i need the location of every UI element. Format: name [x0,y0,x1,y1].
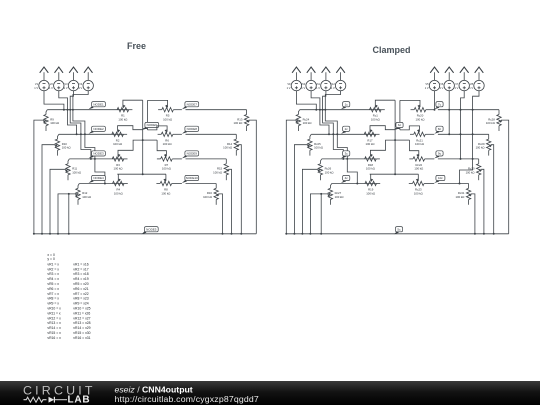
svg-text:1 V: 1 V [301,86,305,90]
potentiometer Rc26 (left cascade) with wiper wire to bottom bus [302,159,333,234]
node flag 1c [341,102,350,110]
wire row 3 left [322,158,377,160]
node flag NODE2 [89,126,106,134]
svg-text:NODE2: NODE2 [93,127,104,131]
wire mid-bus bridge [395,128,400,130]
svg-text:100 kΩ: 100 kΩ [82,195,91,199]
voltage source V8 with up-arrow flag [469,67,484,91]
svg-text:vR16 = x: vR16 = x [47,336,61,340]
svg-text:vR12 = x27: vR12 = x27 [73,316,90,320]
potentiometer R1 on row 1 with wiper riser [117,100,143,121]
svg-text:100 kΩ: 100 kΩ [416,118,425,122]
node flag 5c [394,227,403,235]
svg-text:100 kΩ: 100 kΩ [335,195,344,199]
wire from V4 down to row 4 [72,91,106,185]
potentiometer R16 (right cascade) with wiper wire to bottom bus [203,184,222,234]
svg-text:NODE10: NODE10 [186,176,198,180]
svg-text:vR11 = x: vR11 = x [47,311,61,315]
node flag 2c [341,126,350,134]
wire cross connector row3 level [394,139,409,141]
svg-text:2c: 2c [345,127,349,131]
potentiometer Rc23 on row 4 right half [409,174,424,195]
wire row 4 left [332,183,377,185]
wire mid-bus bridge [143,128,148,130]
svg-text:NODE3: NODE3 [93,152,104,156]
voltage source V4 with up-arrow flag [78,67,93,91]
svg-text:vR1 = x: vR1 = x [47,262,59,266]
svg-text:1 V: 1 V [78,86,82,90]
potentiometer R6 on row 2 right half [148,126,173,146]
svg-text:100 kΩ: 100 kΩ [466,170,475,174]
svg-text:10c: 10c [438,176,443,180]
svg-text:100 kΩ: 100 kΩ [118,118,127,122]
potentiometer R9 (left cascade) with wiper wire to bottom bus [34,110,59,234]
footer CircuitLab logo bar [0,381,540,405]
node flag 3c [341,151,350,159]
svg-text:100 kΩ: 100 kΩ [303,121,312,125]
wire tee from last cascade wiper to bottom bus [320,193,322,235]
potentiometer R14 (right cascade) with wiper wire to bottom bus [223,134,241,234]
svg-text:V9: V9 [287,82,291,86]
wire from V6 down to row 2 (clamp) [448,91,450,136]
parameter expression text block [47,253,90,340]
wire row 1 right [173,109,182,111]
potentiometer R11 (left cascade) with wiper wire to bottom bus [50,159,81,234]
potentiometer Rc21 on row 2 right half [400,126,425,146]
svg-text:100 kΩ: 100 kΩ [213,170,222,174]
svg-text:vR6 = x: vR6 = x [47,287,59,291]
svg-text:vR4 = x: vR4 = x [47,277,59,281]
potentiometer Rc28 (right cascade) with wiper wire to bottom bus [486,110,509,234]
potentiometer R8 on row 4 right half [156,174,171,195]
svg-text:1 V: 1 V [64,86,68,90]
svg-text:100 kΩ: 100 kΩ [50,121,59,125]
wire row 2 right [425,133,434,135]
potentiometer R4 on row 4 with wiper riser [113,174,128,195]
voltage source V7 with up-arrow flag [454,67,469,91]
svg-text:http://circuitlab.com/cygxzp87: http://circuitlab.com/cygxzp87qgdd7 [115,394,259,404]
svg-text:vR10 = x: vR10 = x [47,307,61,311]
svg-text:8c: 8c [438,127,442,131]
svg-text:vR14 = x29: vR14 = x29 [73,326,90,330]
voltage source V3 with up-arrow flag [64,67,79,91]
svg-text:NODE5: NODE5 [146,227,157,231]
wire row 1 to cascade [438,109,499,111]
wire from V1 down to row 1 [44,91,65,111]
wire row 4 to cascade [438,183,469,185]
svg-text:vR10 = x25: vR10 = x25 [73,307,90,311]
svg-text:vR11 = x26: vR11 = x26 [73,311,90,315]
svg-text:1 V: 1 V [287,86,291,90]
wire row 3 left [69,158,124,160]
node flag 7c [434,102,443,110]
voltage source V12 with up-arrow flag [330,67,346,91]
svg-text:100 kΩ: 100 kΩ [366,167,375,171]
potentiometer R18 on row 3 with wiper riser [365,140,396,171]
wire from V3 down to row 3 [69,91,92,160]
wire bottom bus [285,233,508,235]
wire middle bus left vertical [142,100,144,174]
svg-text:vR15 = x: vR15 = x [47,331,61,335]
potentiometer Rc1 on row 1 with wiper riser [370,100,396,121]
wire row 4 to cascade [186,183,217,185]
svg-text:LAB: LAB [68,395,91,405]
svg-text:NODE1: NODE1 [93,102,104,106]
svg-text:100 kΩ: 100 kΩ [415,142,424,146]
svg-text:100 kΩ: 100 kΩ [233,121,242,125]
svg-text:1 V: 1 V [439,86,443,90]
node flag 9c [434,151,443,159]
potentiometer Rc31 (right cascade) with wiper wire to bottom bus [455,184,474,234]
potentiometer Rc24 (left cascade) with wiper wire to bottom bus [286,110,311,234]
wire from V5 down to row 1 (clamp) [434,91,436,111]
wire from V2 down to row 2 [59,91,78,136]
svg-text:NODE9: NODE9 [187,152,198,156]
node flag NODE6 [142,122,159,130]
node flag NODE8 [182,126,199,134]
potentiometer R17 on row 2 with wiper riser [364,126,395,146]
wire row 3 to cascade [438,158,479,160]
node flag NODE10 [182,175,199,183]
svg-text:vR16 = x31: vR16 = x31 [73,336,90,340]
wire row 1 left [47,109,128,111]
wire middle bus right vertical [399,100,401,129]
svg-text:vR3 = x18: vR3 = x18 [73,272,88,276]
svg-text:1 V: 1 V [49,86,53,90]
svg-text:vR15 = x30: vR15 = x30 [73,331,90,335]
node flag NODE1 [89,102,106,110]
node flag 6c [394,122,403,130]
svg-text:vR1 = x16: vR1 = x16 [73,262,88,266]
svg-text:vR13 = x: vR13 = x [47,321,61,325]
svg-text:NODE4: NODE4 [93,176,104,180]
svg-text:100 kΩ: 100 kΩ [163,118,172,122]
node flag 8c [434,126,443,134]
wire row 3 right [425,158,435,160]
wire from V11 down to row 3 [322,91,345,160]
svg-text:100 kΩ: 100 kΩ [114,191,123,195]
potentiometer Rc27 (left cascade) with wiper wire to bottom bus [310,184,343,234]
svg-text:Free: Free [127,41,146,51]
wire from V10 down to row 2 [311,91,330,136]
svg-text:vR12 = x: vR12 = x [47,316,61,320]
wire row 1 to cascade [186,109,247,111]
svg-text:vR5 = x: vR5 = x [47,282,59,286]
voltage source V1 with up-arrow flag [34,67,49,91]
potentiometer R15 (right cascade) with wiper wire to bottom bus [213,159,231,234]
svg-text:6c: 6c [398,123,402,127]
svg-text:vR3 = x: vR3 = x [47,272,59,276]
wire row 3 right [172,158,182,160]
svg-text:100 kΩ: 100 kΩ [113,142,122,146]
voltage source V10 with up-arrow flag [301,67,317,91]
wire row 2 to cascade [186,133,237,135]
wire row 4 right [172,183,182,185]
svg-text:V8: V8 [470,82,474,86]
svg-text:V12: V12 [330,82,335,86]
svg-text:1 V: 1 V [331,86,335,90]
wire row 2 to cascade [438,133,489,135]
svg-text:100 kΩ: 100 kΩ [366,142,375,146]
node flag NODE3 [89,151,106,159]
node flag 4c [341,175,350,183]
wire middle bus right vertical [147,100,149,129]
wire from V9 down to row 1 [296,91,317,111]
svg-text:V5: V5 [425,82,429,86]
svg-text:3c: 3c [345,152,349,156]
svg-text:V7: V7 [455,82,459,86]
voltage source V5 with up-arrow flag [425,67,440,91]
svg-text:V4: V4 [79,82,83,86]
svg-text:100 kΩ: 100 kΩ [163,142,172,146]
svg-text:100 kΩ: 100 kΩ [325,170,334,174]
svg-text:vR9 = x24: vR9 = x24 [73,302,88,306]
wire cross connector row3 level [142,139,157,141]
svg-text:V10: V10 [301,82,306,86]
wire row 4 left [79,183,124,185]
svg-text:100 kΩ: 100 kΩ [72,170,81,174]
svg-text:100 kΩ: 100 kΩ [414,191,423,195]
svg-text:vR2 = x17: vR2 = x17 [73,267,88,271]
svg-text:100 kΩ: 100 kΩ [366,191,375,195]
svg-text:V2: V2 [50,82,54,86]
svg-text:100 kΩ: 100 kΩ [203,195,212,199]
svg-text:4c: 4c [345,176,349,180]
potentiometer R19 on row 4 with wiper riser [365,174,380,195]
potentiometer R3 on row 3 with wiper riser [112,140,143,171]
svg-text:100 kΩ: 100 kΩ [486,121,495,125]
wire row 2 left [59,133,124,135]
svg-text:V3: V3 [64,82,68,86]
svg-text:1 V: 1 V [316,86,320,90]
svg-text:vR5 = x20: vR5 = x20 [73,282,88,286]
wire row 1 left [300,109,381,111]
potentiometer Rc25 (left cascade) with wiper wire to bottom bus [294,134,323,234]
svg-text:1 V: 1 V [454,86,458,90]
wire from V12 down to row 4 [324,91,358,185]
potentiometer Rc22 on row 3 right half [409,140,424,171]
wire row 4 right [424,183,434,185]
svg-text:vR13 = x28: vR13 = x28 [73,321,90,325]
voltage source V9 with up-arrow flag [287,67,302,91]
svg-text:100 kΩ: 100 kΩ [476,146,485,150]
potentiometer R5 on row 1 right half [148,100,174,121]
wire cross connector row4 level [370,173,419,175]
wire tee from last cascade wiper to bottom bus [68,193,70,235]
wire row 1 right [426,109,435,111]
svg-text:vR7 = x: vR7 = x [47,292,59,296]
potentiometer Rc30 (right cascade) with wiper wire to bottom bus [466,159,484,234]
svg-text:100 kΩ: 100 kΩ [414,167,423,171]
potentiometer R2 on row 2 with wiper riser [112,126,143,146]
svg-text:5c: 5c [397,227,401,231]
svg-text:1 V: 1 V [34,86,38,90]
potentiometer Rc29 (right cascade) with wiper wire to bottom bus [476,134,494,234]
voltage source V6 with up-arrow flag [439,67,454,91]
svg-text:100 kΩ: 100 kΩ [62,146,71,150]
svg-text:vR8 = x: vR8 = x [47,297,59,301]
svg-text:NODE8: NODE8 [187,127,198,131]
wire middle bus left vertical [394,100,396,174]
svg-text:1 V: 1 V [425,86,429,90]
svg-text:100 kΩ: 100 kΩ [371,118,380,122]
svg-text:y = 0: y = 0 [47,257,55,261]
svg-text:100 kΩ: 100 kΩ [161,191,170,195]
svg-text:vR9 = x: vR9 = x [47,302,59,306]
svg-text:vR7 = x22: vR7 = x22 [73,292,88,296]
node flag NODE9 [182,151,199,159]
svg-text:1 V: 1 V [469,86,473,90]
wire from V8 down to row 4 (clamp) [459,91,480,185]
wire cross connector row4 level [117,173,166,175]
svg-text:100 kΩ: 100 kΩ [455,195,464,199]
svg-text:vR4 = x19: vR4 = x19 [73,277,88,281]
svg-text:vR6 = x21: vR6 = x21 [73,287,88,291]
node flag NODE4 [89,175,106,183]
potentiometer R13 (right cascade) with wiper wire to bottom bus [233,110,256,234]
wire bottom bus [33,233,256,235]
svg-text:NODE6: NODE6 [147,123,158,127]
voltage source V11 with up-arrow flag [316,67,332,91]
potentiometer R7 on row 3 right half [157,140,172,171]
node flag NODE5 [141,227,158,235]
svg-text:vR8 = x23: vR8 = x23 [73,297,88,301]
svg-text:V6: V6 [440,82,444,86]
svg-text:9c: 9c [438,152,442,156]
svg-text:V11: V11 [316,82,321,86]
svg-text:V1: V1 [35,82,39,86]
svg-text:100 kΩ: 100 kΩ [114,167,123,171]
svg-text:1c: 1c [345,102,349,106]
svg-text:Clamped: Clamped [372,45,410,55]
svg-text:7c: 7c [438,102,442,106]
node flag NODE7 [182,102,199,110]
voltage source V2 with up-arrow flag [49,67,64,91]
wire row 3 to cascade [186,158,227,160]
svg-text:vR2 = x: vR2 = x [47,267,59,271]
node flag 10c [434,175,445,183]
potentiometer R10 (left cascade) with wiper wire to bottom bus [42,134,71,234]
potentiometer Rc20 on row 1 right half [400,100,426,121]
svg-text:100 kΩ: 100 kΩ [162,167,171,171]
svg-text:100 kΩ: 100 kΩ [223,146,232,150]
wire row 2 right [173,133,182,135]
svg-text:100 kΩ: 100 kΩ [314,146,323,150]
wire row 2 left [311,133,376,135]
svg-text:NODE7: NODE7 [187,102,198,106]
potentiometer R12 (left cascade) with wiper wire to bottom bus [58,184,91,234]
svg-text:vR14 = x: vR14 = x [47,326,61,330]
wire from V7 down to row 3 (clamp) [460,91,465,160]
